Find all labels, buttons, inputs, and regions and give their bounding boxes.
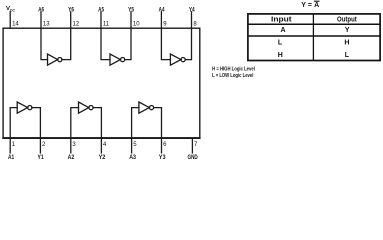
svg-text:=: = [308,2,312,9]
svg-text:CC: CC [10,8,15,13]
svg-text:A6: A6 [38,7,44,13]
svg-text:Y: Y [345,27,350,34]
svg-text:4: 4 [103,142,107,148]
inverter U1B input wire (pin 3) [71,108,79,139]
pin 8 Y4 wire [191,12,193,28]
truth table header underline [248,23,380,25]
inverter U1C bubble [149,106,153,110]
pin 5 A3 wire [131,138,133,153]
svg-text:Y6: Y6 [68,7,74,13]
svg-text:Output: Output [337,16,357,23]
inverter U1D triangle [170,54,181,65]
svg-text:13: 13 [43,21,50,27]
inverter U1B bubble [89,106,93,110]
pin 1 A1 wire [9,138,11,153]
inverter U1B output wire (pin 4) [93,108,101,139]
pin 7 GND wire [191,138,193,153]
inverter U1E output wire (pin 10) [125,28,131,59]
svg-text:Y5: Y5 [128,7,134,13]
svg-text:7: 7 [194,142,198,148]
IC package outline [3,28,200,138]
pin 10 Y5 wire [130,12,132,28]
svg-text:Y1: Y1 [38,155,45,161]
pin 6 Y3 wire [161,138,163,153]
inverter U1A input wire (pin 1) [10,108,17,139]
inverter U1F triangle [48,54,58,65]
truth table row divider under A/Y [248,35,380,37]
pin 13 A6 wire [40,12,42,28]
svg-text:A1: A1 [8,155,15,161]
svg-text:A2: A2 [68,155,75,161]
svg-text:H = HIGH Logic Level: H = HIGH Logic Level [212,67,255,73]
svg-text:A4: A4 [159,7,165,13]
inverter U1F bubble [58,58,62,62]
pin 3 A2 wire [70,138,72,153]
svg-text:12: 12 [73,21,80,27]
pin 4 Y2 wire [100,138,102,153]
inverter U1E bubble [121,58,125,62]
svg-text:A3: A3 [129,155,136,161]
svg-text:11: 11 [103,21,110,27]
svg-text:Y4: Y4 [189,7,195,13]
inverter U1D bubble [181,58,185,62]
svg-text:2: 2 [42,142,46,148]
inverter U1E triangle [110,54,120,65]
truth table outer border [248,14,380,61]
inverter U1E input wire (pin 11) [101,28,110,59]
svg-text:A: A [280,27,285,34]
svg-text:A: A [314,2,319,9]
svg-text:L: L [345,52,350,59]
truth table [248,14,380,61]
svg-text:GND: GND [188,155,199,161]
svg-text:Y: Y [301,2,306,9]
inverter U1D output wire (pin 8) [185,28,191,59]
inverter U1C triangle [139,102,149,113]
inverter U1C output wire (pin 6) [154,108,162,139]
svg-text:9: 9 [163,21,167,27]
truth table column divider [312,14,314,61]
svg-text:H: H [344,40,349,47]
svg-text:L = LOW Logic Level: L = LOW Logic Level [212,73,254,79]
truth table title Y = A-bar [301,1,319,9]
svg-text:H: H [278,52,283,59]
svg-text:L: L [278,40,283,47]
svg-text:8: 8 [193,21,197,27]
inverter U1F input wire (pin 13) [41,28,48,59]
svg-text:6: 6 [163,142,167,148]
pin 9 A4 wire [160,12,162,28]
svg-text:10: 10 [133,21,140,27]
inverter U1F output wire (pin 12) [62,28,71,59]
inverter U1C input wire (pin 5) [132,108,139,139]
svg-text:Y3: Y3 [159,155,166,161]
pin 14 VCC wire [9,12,11,28]
svg-text:3: 3 [72,142,76,148]
svg-text:14: 14 [12,21,19,27]
svg-text:5: 5 [133,142,137,148]
svg-text:Y2: Y2 [99,155,106,161]
IC package bottom edge (thicker) [3,137,200,139]
pin 11 A5 wire [100,12,102,28]
svg-text:1: 1 [12,142,16,148]
inverter U1A output wire (pin 2) [32,108,41,139]
svg-text:A5: A5 [98,7,104,13]
inverter U1A bubble [28,106,32,110]
svg-text:Input: Input [271,16,292,23]
inverter U1B triangle [79,102,89,113]
pin 2 Y1 wire [39,138,41,153]
inverter U1D input wire (pin 9) [161,28,170,59]
pin 12 Y6 wire [70,12,72,28]
inverter U1A triangle [17,102,27,113]
